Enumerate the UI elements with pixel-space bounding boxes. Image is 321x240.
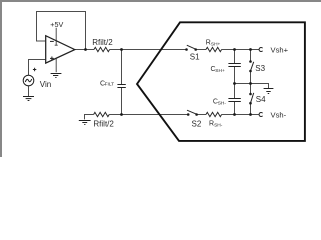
svg-text:SH-: SH- xyxy=(214,123,223,129)
svg-text:Rfilt/2: Rfilt/2 xyxy=(93,120,114,129)
svg-text:FILT: FILT xyxy=(105,82,115,88)
svg-text:S3: S3 xyxy=(255,64,265,73)
svg-text:SH+: SH+ xyxy=(215,68,225,74)
svg-text:Vin: Vin xyxy=(40,80,51,89)
svg-text:SH+: SH+ xyxy=(211,41,221,47)
svg-text:Rfilt/2: Rfilt/2 xyxy=(92,38,113,47)
svg-text:SH-: SH- xyxy=(218,100,227,106)
svg-text:Vsh-: Vsh- xyxy=(271,110,287,119)
svg-text:S2: S2 xyxy=(192,119,202,128)
svg-text:S4: S4 xyxy=(256,95,266,104)
svg-text:S1: S1 xyxy=(190,52,200,61)
svg-text:Vsh+: Vsh+ xyxy=(271,45,289,54)
svg-text:+5V: +5V xyxy=(50,20,63,29)
